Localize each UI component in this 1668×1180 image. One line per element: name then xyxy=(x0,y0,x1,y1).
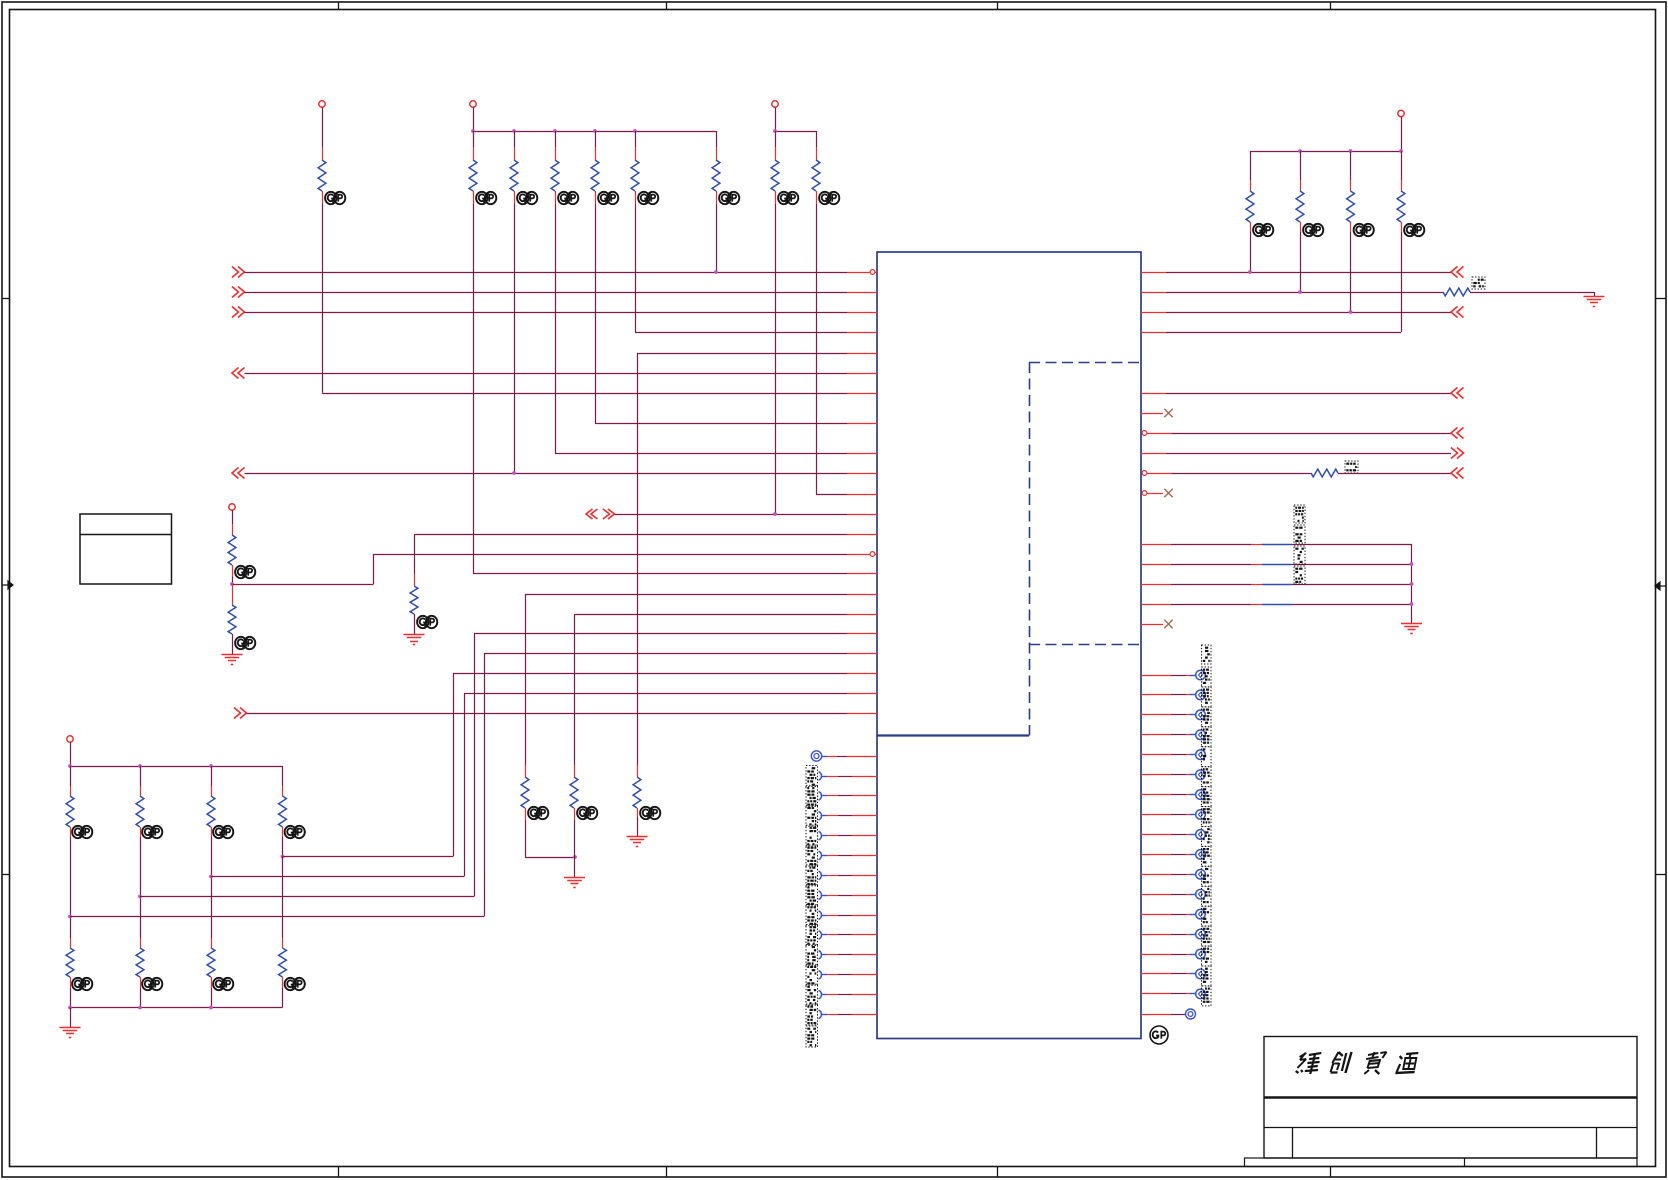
junction on bus x1401 xyxy=(1399,149,1403,153)
wire pin Q6 xyxy=(1141,774,1196,776)
wire P2 to bus xyxy=(473,107,475,131)
resistor R22 pin bottom xyxy=(140,977,142,988)
wire net A17 riser xyxy=(474,634,476,897)
port connector net B2 << xyxy=(1451,307,1464,318)
resistor R2 pin bottom xyxy=(473,191,475,204)
pin out-port glyph Q15 xyxy=(1196,949,1206,959)
resistor R29 label xyxy=(1345,461,1358,473)
resistor R24 pin bottom xyxy=(282,977,284,988)
ground GND1 xyxy=(222,655,243,665)
wire pin Q16 xyxy=(1141,973,1196,975)
resistor R18 pin top xyxy=(140,786,142,796)
wire net A5 xyxy=(245,373,878,375)
junction x211 y876 xyxy=(209,875,213,879)
pin in-port glyph L11 xyxy=(819,951,828,960)
resistor R10 pin top xyxy=(1250,180,1252,191)
pin out-port glyph Q4 xyxy=(1196,730,1206,740)
pin label Q7 xyxy=(1202,787,1212,807)
port connector net C4 << xyxy=(1451,468,1464,479)
left edge center arrow xyxy=(2,581,13,589)
wire pin L8 xyxy=(827,895,877,897)
resistor R8 pin top xyxy=(775,147,777,160)
resistor R13 xyxy=(1397,191,1405,222)
IC U1 internal divider xyxy=(877,734,1029,736)
pin label Q1 xyxy=(1202,667,1212,687)
net C4 pin bubble xyxy=(1142,471,1147,476)
resistor R23 xyxy=(207,948,215,977)
wire R8 down xyxy=(775,204,777,514)
wire net C1 stub xyxy=(1141,413,1163,415)
company logo text (CJK strokes) xyxy=(1295,1052,1418,1074)
junction blm x211 xyxy=(209,764,213,768)
IC U1 dashed sub-block xyxy=(1029,362,1141,736)
resistor R14 label G/P xyxy=(417,616,437,628)
resistor R7 pin top xyxy=(716,147,718,160)
wire net C4 right xyxy=(1338,473,1451,475)
resistor R25 label G/P xyxy=(528,807,548,819)
wire net D3 xyxy=(1141,604,1412,606)
resistor R10 xyxy=(1246,191,1254,222)
wire R4 down xyxy=(555,204,557,453)
pin label L7 xyxy=(806,865,818,886)
resistor R4 pin top xyxy=(555,147,557,160)
wire pin Q9 xyxy=(1141,834,1196,836)
wire bus to R19 xyxy=(211,766,213,786)
wire pin Q17 xyxy=(1141,993,1196,995)
resistor R29 (series) xyxy=(1311,469,1338,477)
resistor R21 pin top xyxy=(70,938,72,948)
wire R7 down xyxy=(716,204,718,272)
ground GND3 xyxy=(60,1028,81,1038)
port connector net A11 << >> xyxy=(586,509,615,519)
resistor R3 pin bottom xyxy=(514,191,516,204)
IC U1 outline xyxy=(877,252,1141,1039)
pin label L9 xyxy=(806,905,818,926)
resistor R2 pin top xyxy=(473,147,475,160)
resistor R12 pin top xyxy=(1350,180,1352,191)
pin in-port glyph L2 xyxy=(819,772,828,781)
pin label Q15 xyxy=(1202,946,1212,966)
pin in-port first bullseye xyxy=(811,751,821,761)
port P3 (VCC) xyxy=(772,101,778,107)
resistor R27 label G/P xyxy=(640,807,660,819)
wire net A17 xyxy=(474,633,877,635)
resistor R22 pin top xyxy=(140,938,142,948)
junction x575 y857 xyxy=(573,855,577,859)
wire pin L3 xyxy=(827,795,877,797)
resistor R11 xyxy=(1296,191,1304,222)
port connector net A1 >> xyxy=(232,287,245,298)
wire net B3 xyxy=(1141,332,1401,334)
wire bus to R13 xyxy=(1401,151,1403,180)
wire net A10 (from R9) xyxy=(816,494,877,496)
junction on bus x1300 xyxy=(1298,149,1302,153)
resistor R25 xyxy=(521,777,529,808)
wire col282 down xyxy=(282,857,284,939)
resistor R14 xyxy=(410,586,418,614)
port connector net C2 << xyxy=(1451,428,1464,439)
resistor R4 label G/P xyxy=(558,192,578,204)
wire net A15 xyxy=(525,594,877,596)
pin label Q16 xyxy=(1202,966,1212,986)
resistor R5 pin bottom xyxy=(595,191,597,204)
port P1 (VCC) xyxy=(319,101,325,107)
wire P6 to bus xyxy=(70,742,72,766)
resistor R10 label G/P xyxy=(1253,224,1273,236)
resistor R5 label G/P xyxy=(598,192,618,204)
resistor R23 label G/P xyxy=(213,978,233,990)
bus wire top right pair xyxy=(775,131,816,133)
resistor R23 pin bottom xyxy=(211,977,213,988)
title block xyxy=(1245,1037,1638,1167)
resistor R3 xyxy=(510,160,518,191)
pin label Q13 xyxy=(1202,906,1212,926)
wire bus to R20 xyxy=(282,766,284,786)
pin in-port glyph L13 xyxy=(819,990,828,999)
resistor R13 label G/P xyxy=(1404,224,1424,236)
resistor R8 pin bottom xyxy=(775,191,777,204)
resistor R3 label G/P xyxy=(517,192,537,204)
pin label Q3 xyxy=(1202,707,1212,727)
junction on bus x635 xyxy=(633,129,637,133)
wire pin L-lower 1 xyxy=(822,756,877,758)
wire pin L6 xyxy=(827,855,877,857)
pin label L5 xyxy=(806,825,818,846)
resistor R20 label G/P xyxy=(285,826,305,838)
pin out-port glyph Q3 xyxy=(1196,710,1206,720)
junction blb x211 xyxy=(209,1006,213,1010)
wire pin Q18 xyxy=(1141,1014,1185,1016)
wire R24 to bus xyxy=(282,988,284,1008)
pin label Q11 xyxy=(1202,866,1212,886)
resistor R9 xyxy=(812,160,820,191)
wire R10 down xyxy=(1250,232,1252,272)
wire pin L4 xyxy=(827,815,877,817)
net D label 2 xyxy=(1294,546,1305,564)
wire pin Q15 xyxy=(1141,954,1196,956)
wire R11 down xyxy=(1300,232,1302,292)
resistor R1 xyxy=(318,160,326,191)
wire net A15 riser xyxy=(525,594,527,765)
wire net A20 xyxy=(464,693,877,695)
junction D1 xyxy=(1410,562,1414,566)
no-connect net D4 xyxy=(1164,620,1172,628)
resistor R6 pin top xyxy=(635,147,637,160)
wire net A16 xyxy=(574,614,877,616)
wire P1 to R1 xyxy=(322,107,324,147)
resistor R2 xyxy=(469,160,477,191)
net D label 0 xyxy=(1294,505,1305,523)
pin in-port glyph L5 xyxy=(819,831,828,840)
ground GND2 xyxy=(404,635,425,645)
resistor R4 xyxy=(551,160,559,191)
resistor R26 xyxy=(570,777,578,808)
pin label first lower-right xyxy=(1202,645,1212,664)
wire net C5 stub xyxy=(1147,493,1163,495)
junction on bus x775 xyxy=(773,129,777,133)
net C5 pin bubble xyxy=(1142,491,1147,496)
resistor R16 label G/P xyxy=(235,637,255,649)
resistor R14 pin top xyxy=(414,574,416,586)
wire R15 to junction xyxy=(232,577,234,584)
wire R23 to bus xyxy=(211,988,213,1008)
resistor R9 pin bottom xyxy=(816,191,818,204)
pin out-port glyph Q17 xyxy=(1196,989,1206,999)
wire pin Q12 xyxy=(1141,894,1196,896)
resistor R5 pin top xyxy=(595,147,597,160)
resistor R5 xyxy=(591,160,599,191)
resistor R23 pin top xyxy=(211,938,213,948)
pin label L14 xyxy=(806,1004,818,1025)
pin label Q5 xyxy=(1202,747,1212,767)
wire R9 down xyxy=(816,204,818,494)
pin label L13 xyxy=(806,984,818,1005)
pin label Q6 xyxy=(1202,767,1212,787)
wire net D2 xyxy=(1141,584,1412,586)
junction on bus x514 xyxy=(512,129,516,133)
wire bus to R17 xyxy=(70,766,72,786)
pin label Q2 xyxy=(1202,687,1212,707)
resistor R28 label xyxy=(1472,277,1485,289)
wire net B1 left xyxy=(1141,292,1443,294)
wire net C3 xyxy=(1141,453,1451,455)
resistor R21 xyxy=(66,948,74,977)
wire net D1 xyxy=(1141,564,1412,566)
resistor R21 pin bottom xyxy=(70,977,72,988)
net D label 1 xyxy=(1294,525,1305,543)
wire bus to R4 xyxy=(555,131,557,147)
wire net A1 xyxy=(245,292,878,294)
wire bus to R2 xyxy=(473,131,475,147)
wire net A19 xyxy=(453,673,877,675)
wire net A4 corner xyxy=(637,353,639,765)
net C2 pin bubble xyxy=(1142,431,1147,436)
wire R1 down to net xyxy=(322,204,324,393)
wire pin Q8 xyxy=(1141,814,1196,816)
resistor R27 xyxy=(633,777,641,808)
resistor R20 pin bottom xyxy=(282,827,284,837)
junction blm x140 xyxy=(138,764,142,768)
port connector net A9 << xyxy=(232,468,245,479)
wire divider net to corner xyxy=(232,584,374,586)
junction net B2 x1350 xyxy=(1349,310,1353,314)
junction blb x70 xyxy=(68,1006,72,1010)
wire net A2 xyxy=(245,312,878,314)
bus wire bottom-left top xyxy=(70,766,283,768)
resistor R19 pin bottom xyxy=(211,827,213,837)
resistor R22 label G/P xyxy=(142,978,162,990)
resistor R1 pin bottom xyxy=(322,191,324,204)
wire net A21 xyxy=(247,713,878,715)
wire net A20 riser xyxy=(464,693,466,877)
bus wire top mid group xyxy=(473,131,716,133)
resistor R21 label G/P xyxy=(72,978,92,990)
resistor R13 pin top xyxy=(1401,180,1403,191)
pin label Q12 xyxy=(1202,886,1212,906)
wire pin Q2 xyxy=(1141,694,1196,696)
resistor R16 xyxy=(228,605,236,634)
junction on bus x1350 xyxy=(1349,149,1353,153)
bus wire bottom-left bottom xyxy=(70,1007,283,1009)
port connector net C0 << xyxy=(1451,388,1464,399)
wire net A19 horizontal xyxy=(283,856,454,858)
wire vertical bus right xyxy=(1411,544,1413,623)
pin out-port glyph Q1 xyxy=(1196,670,1206,680)
junction on bus x595 xyxy=(593,129,597,133)
wire net A7 (from R5) xyxy=(595,423,877,425)
wire net A18 xyxy=(484,653,877,655)
wire net A6 (from R1) xyxy=(322,393,877,395)
pin in-port glyph L10 xyxy=(819,931,828,940)
port connector net A2 >> xyxy=(232,307,245,318)
wire bus to R5 xyxy=(595,131,597,147)
wire pin L5 xyxy=(827,835,877,837)
ground GND6 xyxy=(1584,292,1605,307)
note box xyxy=(80,514,172,584)
pin label Q10 xyxy=(1202,846,1212,866)
pin out-port glyph Q16 xyxy=(1196,969,1206,979)
junction net B1 x1300 xyxy=(1298,290,1302,294)
resistor R1 label G/P xyxy=(325,192,345,204)
right edge center arrow xyxy=(1655,582,1666,590)
wire pin L11 xyxy=(827,954,877,956)
no-connect net C5 xyxy=(1164,489,1172,497)
wire R25 to corner xyxy=(525,820,575,858)
pin label Q8 xyxy=(1202,807,1212,827)
pin label L4 xyxy=(806,805,818,826)
resistor R27 pin top xyxy=(637,765,639,777)
wire pin L12 xyxy=(827,974,877,976)
resistor R3 pin top xyxy=(514,147,516,160)
resistor R15 label G/P xyxy=(235,566,255,578)
resistor R17 pin top xyxy=(70,786,72,796)
wire net A11 xyxy=(615,514,877,516)
wire pin L10 xyxy=(827,934,877,936)
junction net A0 x716 xyxy=(714,270,718,274)
port P4 (VCC) xyxy=(1398,110,1404,116)
pin in-port glyph L12 xyxy=(819,970,828,979)
ground GND4 xyxy=(564,878,585,888)
wire R20 to junction xyxy=(282,837,284,857)
wire R14 to ground xyxy=(414,614,416,634)
wire R27 to ground xyxy=(637,817,639,836)
junction D2 xyxy=(1410,582,1414,586)
wire net A13 xyxy=(374,554,877,556)
resistor R16 pin top xyxy=(232,584,234,605)
resistor R24 label G/P xyxy=(285,978,305,990)
pin label L10 xyxy=(806,924,818,945)
pin label Q4 xyxy=(1202,727,1212,747)
wire R13 down xyxy=(1401,232,1403,332)
wire R17 col down xyxy=(70,837,72,938)
junction net A9 x514 xyxy=(512,471,516,475)
IC GP designator xyxy=(1150,1026,1168,1044)
wire pin Q5 xyxy=(1141,754,1196,756)
pin label Q17 xyxy=(1202,986,1212,1006)
resistor R12 pin bottom xyxy=(1350,222,1352,232)
resistor R22 xyxy=(136,948,144,977)
wire R18 col down xyxy=(140,837,142,938)
pin in-port glyph L3 xyxy=(819,792,828,801)
resistor R7 xyxy=(712,160,720,191)
pin out-port glyph Q12 xyxy=(1196,889,1206,899)
resistor R20 xyxy=(279,796,287,827)
wire pin Q14 xyxy=(1141,934,1196,936)
resistor R12 label G/P xyxy=(1354,224,1374,236)
pin label L6 xyxy=(806,845,818,866)
resistor R18 pin bottom xyxy=(140,827,142,837)
wire net A14 (from R2) xyxy=(473,573,877,575)
wire R5 down xyxy=(595,204,597,423)
junction x140 y896 xyxy=(138,895,142,899)
pin out-port glyph Q7 xyxy=(1196,790,1206,800)
pin out-port glyph Q13 xyxy=(1196,909,1206,919)
junction blb x140 xyxy=(138,1006,142,1010)
pin out-port glyph Q9 xyxy=(1196,830,1206,840)
resistor R26 pin bottom xyxy=(574,808,576,820)
wire R6 down xyxy=(635,204,637,332)
wire bus to R9 xyxy=(816,131,818,147)
port connector net B0 << xyxy=(1451,267,1464,278)
junction blm x70 xyxy=(68,764,72,768)
pin in-port glyph L9 xyxy=(819,911,828,920)
resistor R26 pin top xyxy=(574,765,576,777)
resistor R24 xyxy=(279,948,287,977)
resistor R4 pin bottom xyxy=(555,191,557,204)
pin in-port glyph L4 xyxy=(819,811,828,820)
wire bus to R8 xyxy=(775,131,777,147)
wire net A4 xyxy=(637,353,877,355)
wire bus to R18 xyxy=(140,766,142,786)
wire bus to ground xyxy=(70,1008,72,1028)
resistor R11 pin bottom xyxy=(1300,222,1302,232)
wire net A8 (from R4) xyxy=(555,453,877,455)
pin out-port glyph Q8 xyxy=(1196,810,1206,820)
wire net A0 xyxy=(245,272,878,274)
no-connect net C1 xyxy=(1164,409,1172,417)
port P2 (VCC) xyxy=(470,101,476,107)
pin out-port glyph Q5 xyxy=(1196,750,1206,760)
resistor R17 label G/P xyxy=(72,826,92,838)
wire net D0 xyxy=(1141,544,1412,546)
bus wire top right group xyxy=(1250,151,1401,153)
resistor R1 pin top xyxy=(322,147,324,160)
wire net A12 (from R14) xyxy=(414,534,877,536)
resistor R25 pin top xyxy=(525,765,527,777)
ground GND7 xyxy=(1401,624,1422,634)
resistor R18 label G/P xyxy=(142,826,162,838)
wire R16 to ground xyxy=(232,634,234,654)
resistor R17 pin bottom xyxy=(70,827,72,837)
net A0 pin bubble xyxy=(870,270,875,275)
resistor R26 label G/P xyxy=(577,807,597,819)
wire net A17 horizontal xyxy=(140,896,474,898)
wire R12 down xyxy=(1350,232,1352,312)
resistor R11 pin top xyxy=(1300,180,1302,191)
wire bus to R3 xyxy=(514,131,516,147)
junction D3 xyxy=(1410,602,1414,606)
junction on bus x555 xyxy=(553,129,557,133)
wire net C4 left xyxy=(1147,473,1311,475)
junction x232 y584 xyxy=(230,582,234,586)
wire pin Q11 xyxy=(1141,874,1196,876)
pin out-port glyph Q11 xyxy=(1196,870,1206,880)
net D label 3 xyxy=(1294,566,1305,584)
port connector net A0 >> xyxy=(232,267,245,278)
resistor R7 pin bottom xyxy=(716,191,718,204)
resistor R19 xyxy=(207,796,215,827)
wire R2 down xyxy=(473,204,475,573)
